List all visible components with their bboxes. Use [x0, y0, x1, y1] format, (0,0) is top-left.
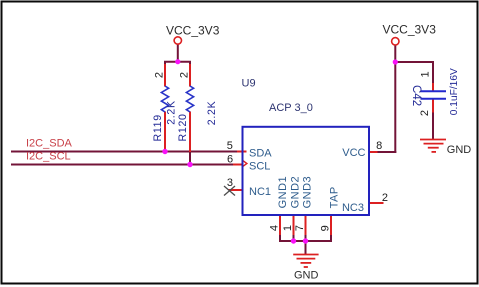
- svg-text:R119: R119: [152, 114, 164, 141]
- svg-text:GND: GND: [447, 144, 472, 156]
- svg-text:1: 1: [282, 225, 294, 231]
- svg-text:SDA: SDA: [249, 148, 272, 160]
- svg-text:GND: GND: [294, 269, 319, 281]
- svg-text:R120: R120: [177, 113, 189, 141]
- svg-text:2.2K: 2.2K: [206, 101, 218, 126]
- svg-text:TAP: TAP: [329, 186, 341, 208]
- svg-text:9: 9: [319, 225, 331, 231]
- svg-text:VCC_3V3: VCC_3V3: [166, 24, 220, 38]
- svg-text:8: 8: [376, 140, 382, 152]
- svg-text:ACP 3_0: ACP 3_0: [269, 102, 313, 114]
- svg-text:SCL: SCL: [249, 161, 270, 173]
- svg-text:0.1uF/16V: 0.1uF/16V: [449, 68, 460, 115]
- svg-text:I2C_SDA: I2C_SDA: [26, 138, 73, 150]
- svg-text:VCC_3V3: VCC_3V3: [383, 22, 437, 36]
- svg-text:5: 5: [227, 140, 233, 152]
- svg-text:GND1: GND1: [277, 176, 289, 209]
- svg-text:4: 4: [268, 225, 280, 231]
- svg-text:7: 7: [294, 225, 306, 231]
- svg-text:2.2K: 2.2K: [165, 100, 177, 125]
- svg-text:2: 2: [419, 110, 431, 116]
- svg-text:GND3: GND3: [302, 176, 314, 209]
- svg-text:3: 3: [227, 177, 233, 189]
- svg-text:2: 2: [179, 72, 191, 78]
- svg-text:NC1: NC1: [249, 186, 271, 198]
- svg-text:2: 2: [382, 192, 388, 204]
- svg-text:GND2: GND2: [289, 176, 301, 209]
- svg-text:NC3: NC3: [342, 202, 364, 214]
- svg-text:I2C_SCL: I2C_SCL: [26, 151, 71, 163]
- svg-text:2: 2: [154, 72, 166, 78]
- svg-text:1: 1: [420, 71, 432, 77]
- svg-text:6: 6: [227, 154, 233, 166]
- svg-text:VCC: VCC: [342, 147, 365, 159]
- svg-text:C42: C42: [410, 85, 422, 106]
- svg-text:U9: U9: [242, 78, 256, 90]
